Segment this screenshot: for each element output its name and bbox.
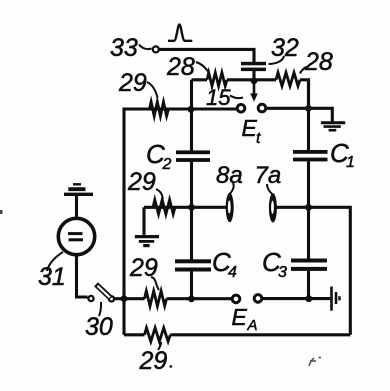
wire top rail [159,49,254,62]
resistor 29 (bottom) [145,328,171,342]
middle vertical wire (mid) [190,162,193,260]
junction dot [305,295,312,302]
leader 29 EA [151,277,159,290]
switch 30 blade [96,284,111,298]
svg-text:1: 1 [346,154,355,171]
wire battery to source [75,196,78,217]
middle vertical wire (upper) [190,80,193,151]
leader 30 [99,302,101,316]
junction dot [305,204,312,211]
capacitor C4 [175,259,211,271]
contact 7a [269,193,277,222]
right vertical wire (mid) [307,161,310,258]
leader 29 top left [147,82,158,98]
svg-text:4: 4 [228,264,237,281]
wire EA rail mid [167,297,232,300]
capacitor C1 [293,150,328,161]
ground (middle left) [135,237,159,246]
stray speck left edge [0,210,3,214]
wire EA rail right [263,297,331,300]
svg-text:15: 15 [206,85,231,110]
source 31 equals bars [68,234,83,240]
wire rail to right corner [300,80,309,109]
resistor 29 (middle left) [153,200,175,215]
wire resistor rail middle [227,78,276,81]
capacitor C3 [291,259,327,271]
ground (top right) [321,123,345,130]
resistor 28 (right) [276,73,300,87]
junction dot [188,296,195,303]
leader 31 [47,252,63,271]
svg-text:t: t [256,130,261,147]
svg-text:29: 29 [139,347,168,375]
wire 7a rail right [277,207,351,334]
svg-text:29: 29 [118,69,147,97]
resistor 29 (top left) [150,102,169,116]
battery symbol above source 31 [64,184,93,194]
wire Et rail right [267,108,333,121]
switch 30 right circle [109,296,114,301]
svg-text:E: E [232,304,248,330]
label C4 [212,247,237,281]
svg-text:29: 29 [127,168,156,196]
node Et label [242,115,262,147]
terminal Et left [237,105,245,113]
leader 32 [269,56,285,64]
label C3 [262,247,287,281]
label C2 [146,139,172,173]
arrow 15 (down) [253,83,256,96]
wire switch to junction [115,297,125,300]
leader 28 left [196,62,209,72]
node EA label [232,304,258,334]
capacitor 32 [241,62,266,71]
terminal EA right [254,295,262,303]
wire cap32 to junction [252,71,255,80]
wire source to switch [77,255,88,297]
bottom rail left [124,333,145,336]
svg-text:2: 2 [162,156,172,173]
terminal Et right [258,104,266,112]
svg-text:32: 32 [271,34,299,62]
bottom rail right [170,333,350,336]
wire Et rail left [124,107,237,110]
junction dot [188,106,195,113]
leader 33 [139,45,152,50]
leader 15 [230,96,243,99]
junction dot [121,295,128,302]
svg-text:33: 33 [110,34,138,62]
leader 28 right [300,66,309,74]
svg-text:30: 30 [85,313,113,341]
contact 8a [226,193,234,222]
pulse glyph [168,25,192,41]
ground (middle left) wire [142,207,145,235]
left vertical wire [122,108,125,335]
junction dot [251,77,258,84]
stray mark bottom right [309,358,321,367]
leader 8a [229,183,234,195]
source 31 (circle) [58,218,94,254]
junction dot [305,105,312,112]
svg-text:28: 28 [304,48,333,76]
junction dot [188,204,195,211]
svg-text:3: 3 [278,264,287,281]
svg-text:31: 31 [38,263,66,291]
terminal 33 (open circle) [153,46,159,52]
leader 29 middle [156,189,163,199]
right vertical wire (upper) [307,80,310,150]
leader 7a [267,184,272,194]
period after 29 bottom [169,365,172,368]
svg-text:A: A [247,317,258,334]
svg-text:8a: 8a [216,162,243,189]
wire resistor rail left [192,78,208,81]
resistor 29 (EA rail) [145,291,167,306]
svg-text:28: 28 [166,53,195,81]
wire 8a rail left [144,206,227,209]
battery (right, near C3) [332,287,340,311]
leader 29 bottom [158,342,161,350]
middle vertical wire (lower) [190,272,193,299]
capacitor C2 [176,150,210,162]
switch 30 pivot circle [88,296,93,301]
label C1 [330,138,355,171]
right vertical wire (lower) [307,271,310,299]
resistor 28 (left) [207,73,227,86]
wire EA rail left [124,297,145,300]
terminal EA left [232,295,240,303]
